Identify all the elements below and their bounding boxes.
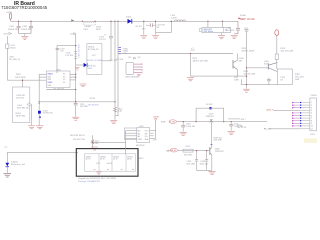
wire IR box to rail <box>31 105 33 126</box>
svg-text:2: 2 <box>311 105 312 107</box>
svg-text:IR:Receive_led: IR:Receive_led <box>11 164 25 166</box>
resistor R104 on +3V3 rail <box>6 36 8 44</box>
ground red inside keypad box <box>96 172 101 174</box>
svg-text:C?: C? <box>104 34 106 36</box>
svg-text:B? 1: B? 1 <box>97 163 101 165</box>
wire +5V elbow to diode <box>76 64 84 66</box>
svg-text:XXX ?: XXX ? <box>241 119 246 121</box>
svg-text:XXF 30Vuh: XXF 30Vuh <box>204 31 214 33</box>
label under wire start <box>116 59 124 61</box>
svg-text:C107: C107 <box>83 29 89 31</box>
node junction dots on bus <box>18 21 223 22</box>
net flag +5V <box>70 33 74 35</box>
label rows near cap rail <box>90 98 96 100</box>
wire Q202 base y=150.7 <box>178 150 210 152</box>
net flag +5V mid <box>128 57 141 59</box>
capacitor C203 leg <box>196 151 198 160</box>
svg-text:4K 7K: 4K 7K <box>86 159 91 161</box>
svg-text:10K/1% 10W: 10K/1% 10W <box>244 74 256 76</box>
svg-text:11: 11 <box>311 128 313 130</box>
wire Q202 emitter down <box>211 155 213 171</box>
resistor R701 chain <box>70 135 85 141</box>
rotated net text IR_3.3V <box>191 48 195 52</box>
ground under left rail <box>36 126 43 129</box>
capacitor snubber loop on bus <box>156 21 172 32</box>
net oval P_ON red <box>169 120 177 124</box>
capacitor C201 <box>182 122 184 126</box>
ground under R110 <box>110 120 117 123</box>
svg-text:NET: NET <box>142 28 146 30</box>
svg-text:3: 3 <box>311 107 312 109</box>
wire tall rail B x=118 <box>115 21 118 115</box>
wire mid horizontal y=76.1 <box>191 75 247 77</box>
wire bypass loop over Q201 <box>196 108 224 121</box>
resistor array on +5V rail <box>74 52 77 59</box>
svg-text:6: 6 <box>311 115 312 117</box>
capacitor C114 <box>74 103 78 105</box>
svg-text:10F JPL,B?: 10F JPL,B? <box>237 127 246 129</box>
svg-text:4K 7K: 4K 7K <box>113 159 118 161</box>
wire long rail x=246.5 <box>246 31 248 85</box>
svg-text:1/16 10W: 1/16 10W <box>214 140 222 142</box>
svg-text:10K/1% 1/16W: 10K/1% 1/16W <box>242 51 255 53</box>
svg-text:IR_LED_N: IR_LED_N <box>10 59 21 61</box>
pin ticks blue on rail B <box>118 48 121 54</box>
svg-text:2EL/1F10: 2EL/1F10 <box>184 154 192 156</box>
svg-text:R109: R109 <box>96 29 101 31</box>
wire base of Q102 <box>247 67 269 69</box>
resistor R112 label <box>193 58 208 63</box>
wire Q201 base down <box>211 122 213 147</box>
resistor R114 <box>275 54 278 60</box>
wire mid vertical x=188.5 <box>190 54 192 77</box>
svg-text:R107: R107 <box>16 74 22 76</box>
svg-text:D101: D101 <box>126 17 132 19</box>
svg-text:10K 1/16W: 10K 1/16W <box>15 77 25 79</box>
svg-text:LED102 +5V 100M: LED102 +5V 100M <box>86 60 102 62</box>
capacitor C204 leg <box>206 151 208 160</box>
svg-text:10?: 10? <box>138 57 141 59</box>
resistor R113 label <box>242 48 255 52</box>
wire tall rail A x=115 <box>114 21 116 107</box>
LED D103 blue square on rail <box>38 111 41 114</box>
svg-text:NET: C1.01: NET: C1.01 <box>240 17 255 21</box>
svg-text:GND: GND <box>138 139 143 141</box>
IR receiver U103 rounded box <box>126 62 134 74</box>
connector pin numbers <box>311 102 313 130</box>
svg-text:KB:A1: KB:A1 <box>48 73 53 76</box>
svg-text:P_ON: P_ON <box>169 122 175 124</box>
svg-text:XX: XX <box>280 79 283 81</box>
ground dark bottom-left <box>4 173 12 177</box>
keypad inner frame <box>84 154 135 171</box>
svg-text:PNP2222: PNP2222 <box>215 151 224 153</box>
capacitor rail x=111 <box>110 21 112 36</box>
svg-text:U103 CHQ0038: U103 CHQ0038 <box>125 77 140 79</box>
wire MCU bottom y=93.4 <box>46 89 75 91</box>
capacitor C113 <box>268 78 270 80</box>
svg-text:NOT WE: NOT WE <box>80 106 88 108</box>
svg-text:SCL: SCL <box>145 136 149 138</box>
svg-text:100UF 16V: 100UF 16V <box>21 29 32 31</box>
wire left rail x=39.2 <box>38 74 40 125</box>
ground under U100 <box>221 33 223 35</box>
IR module IR101 box <box>13 87 30 123</box>
svg-text:104: 104 <box>60 51 63 53</box>
svg-text:AT24C02: AT24C02 <box>136 144 145 147</box>
wire mid horizontal y=54.4 <box>118 53 233 55</box>
svg-text:+5V: +5V <box>70 33 74 35</box>
svg-text:U201: U201 <box>139 126 144 128</box>
red mark near MCU <box>75 68 80 71</box>
capacitor C105 <box>17 21 21 33</box>
svg-text:XX XXX: XX XXX <box>206 104 213 106</box>
svg-text:6.8K: 6.8K <box>118 111 122 113</box>
svg-text:2.2UF 16V: 2.2UF 16V <box>186 126 196 128</box>
transistor Q101 <box>232 60 234 69</box>
ground under IR box stub <box>28 126 35 129</box>
transistor Q201 <box>210 120 213 123</box>
svg-text:1/3W: 1/3W <box>234 79 239 81</box>
op-amp U101 block box <box>99 37 106 41</box>
svg-text:4N7: 4N7 <box>239 60 244 62</box>
resistor R110 zigzag <box>114 107 117 112</box>
wire horizontal to MCU <box>7 79 46 81</box>
transistor Q102 <box>264 61 269 65</box>
ground under C201 <box>180 132 187 135</box>
svg-text:1W: 1W <box>157 27 160 29</box>
svg-text:+3V3?: +3V3? <box>153 117 160 119</box>
svg-text:+3V3: +3V3 <box>3 34 9 36</box>
svg-text:4u: 4u <box>225 30 227 32</box>
svg-text:U102: U102 <box>56 70 62 72</box>
ground red right of MCU <box>80 84 87 87</box>
svg-text:SW2?: SW2? <box>139 158 144 160</box>
svg-text:R210: R210 <box>186 146 191 148</box>
wire +5V rail <box>75 34 77 104</box>
svg-text:NOT USE: NOT USE <box>187 164 196 166</box>
svg-text:10W: 10W <box>295 79 299 81</box>
wire EEPROM row y=142.3 <box>93 141 126 143</box>
svg-text:1005AF: 1005AF <box>85 25 92 28</box>
diode at IR box right edge <box>27 103 32 106</box>
wire +5V branch to MCU top <box>57 46 76 73</box>
ground under C105/C106 <box>21 36 28 39</box>
capacitor C110 at bus end <box>234 21 240 34</box>
wire IR box feed <box>22 80 24 87</box>
keypad switches SW201-SW204 <box>86 156 133 160</box>
ground under mid vertical <box>187 78 194 81</box>
node blue dot on loop top <box>209 107 211 109</box>
wire bottom-left long y=152.3 <box>7 151 78 153</box>
connector pin stubs and NC wires <box>300 103 310 129</box>
svg-text:C?4?: C?4? <box>153 140 157 142</box>
wire MCU left pins <box>39 73 46 75</box>
svg-text:NB XXXX 10K XX: NB XXXX 10K XX <box>70 135 85 137</box>
ground under C114 <box>72 117 79 120</box>
LED diode D102 blue <box>84 63 87 67</box>
wire y=100.8 <box>39 101 115 103</box>
svg-text:100UF 16V: 100UF 16V <box>8 29 19 31</box>
label wire stub row <box>228 118 240 120</box>
svg-text:XXX XXX/XX: XXX XXX/XX <box>88 105 100 107</box>
svg-text:KB2: KB2 <box>48 76 51 78</box>
svg-text:A1: A1 <box>138 132 140 135</box>
svg-text:100U 10V: 100U 10V <box>200 164 209 166</box>
svg-text:VCC: VCC <box>145 131 149 133</box>
transistor Q202 <box>209 147 211 155</box>
ground under Q202 <box>208 171 215 174</box>
resistor R107 label <box>15 74 25 79</box>
ground under long rail <box>246 85 248 89</box>
svg-text:IRIN: IRIN <box>48 79 52 81</box>
svg-text:7: 7 <box>311 118 312 120</box>
svg-text:XXX: XXX <box>264 63 269 65</box>
svg-text:9: 9 <box>311 123 312 125</box>
svg-text:Package 224/GAN/CPH: Package 224/GAN/CPH <box>78 180 100 183</box>
svg-text:A2: A2 <box>138 135 140 138</box>
svg-text:1=0.0L: 1=0.0L <box>107 163 113 165</box>
svg-text:16V 10%: 16V 10% <box>16 98 24 100</box>
svg-text:0402: 0402 <box>88 68 92 70</box>
svg-text:WP: WP <box>145 133 149 135</box>
svg-text:10K/1% 1/16 10W: 10K/1% 1/16 10W <box>193 61 208 63</box>
wire PC_ON to connector <box>272 128 300 130</box>
transistor Q201 labels <box>206 113 214 118</box>
opto box U104 <box>277 69 292 85</box>
wire eeprom bus into keypad <box>125 142 127 154</box>
capacitor C106 <box>29 21 33 33</box>
svg-text:+5V: +5V <box>128 57 132 59</box>
wire PNP main rail y=121.6 <box>177 121 267 123</box>
svg-text:+3V3_?: +3V3_? <box>266 109 274 111</box>
svg-text:4K/1K: 4K/1K <box>127 159 132 161</box>
svg-text:NOT WE_NC: NOT WE_NC <box>88 49 99 51</box>
ground under C202 <box>228 131 235 134</box>
inductor L100 on bus <box>171 15 177 20</box>
svg-text:4: 4 <box>311 110 312 112</box>
svg-text:CN201: CN201 <box>311 95 318 97</box>
resistor R115 label <box>244 71 256 76</box>
svg-text:X?0?: X?0? <box>161 121 165 123</box>
net name IR_LED text <box>10 57 21 62</box>
svg-text:+5V?: +5V? <box>92 55 96 57</box>
svg-text:PL400: PL400 <box>240 15 247 17</box>
svg-text:4K 7K: 4K 7K <box>100 159 105 161</box>
ground red above keypad box <box>91 147 98 150</box>
svg-text:P2: P2 <box>63 76 65 78</box>
svg-text:P1: P1 <box>63 74 65 76</box>
svg-text:A0: A0 <box>138 130 140 133</box>
svg-text:XX XX: XX XX <box>90 98 96 100</box>
svg-text:PNP2222: PNP2222 <box>206 116 214 118</box>
svg-text:NOT WE_NC: NOT WE_NC <box>17 107 30 109</box>
svg-text:GN_M: GN_M <box>170 150 176 152</box>
capacitor C202 <box>230 122 232 125</box>
wire eeprom right pins <box>150 131 156 139</box>
resistor network bracket <box>125 128 137 140</box>
svg-text:4.7F 1U: 4.7F 1U <box>99 39 106 41</box>
svg-text:+5V 10?: +5V 10? <box>135 26 142 28</box>
wire main +5V bus <box>11 20 239 22</box>
ground under C110 <box>231 35 238 38</box>
svg-text:P4: P4 <box>63 82 65 84</box>
svg-text:5: 5 <box>311 113 312 115</box>
keypad module box <box>76 149 138 177</box>
svg-text:S?0?: S?0? <box>310 134 316 136</box>
svg-text:10UH: 10UH <box>171 17 177 19</box>
svg-text:VSS: VSS <box>48 85 52 87</box>
svg-text:715G6077RD10000045: 715G6077RD10000045 <box>1 5 48 10</box>
wire bottom join <box>197 170 212 172</box>
svg-text:XXXX: XXXX <box>48 82 54 84</box>
svg-text:R11?: R11? <box>191 50 195 52</box>
pins of U103 <box>134 64 142 72</box>
jumper JP101 below bus <box>84 22 96 25</box>
wire arrow marker on bus <box>71 19 75 21</box>
LED D104 blue receive <box>6 152 8 162</box>
wire MCU right pins <box>70 73 76 75</box>
label rows left edge <box>237 125 246 129</box>
svg-text:C111: C111 <box>244 28 248 30</box>
svg-text:IR RED_NC: IR RED_NC <box>43 113 53 115</box>
svg-text:10K: 10K <box>95 143 99 145</box>
wire VCC rail x=276.8 <box>276 35 278 54</box>
ground pair mid bus <box>143 21 145 35</box>
svg-text:R104: R104 <box>11 47 17 49</box>
svg-text:XX XXX: XX XXX <box>116 59 124 61</box>
svg-text:4.7F 16V: 4.7F 16V <box>65 55 73 57</box>
net flag +5VSB <box>6 12 13 14</box>
net flag VCC red <box>275 30 279 36</box>
wire bottom rail y=84.6 <box>241 79 277 84</box>
keypad internal dividers <box>99 154 126 171</box>
svg-text:PC_ON?: PC_ON? <box>264 129 273 131</box>
wire +3V3 to connector <box>273 109 300 111</box>
wire cap bottoms join <box>19 33 31 35</box>
svg-text:10: 10 <box>311 126 313 128</box>
svg-text:C109 4.7F 16V X: C109 4.7F 16V X <box>77 44 79 59</box>
svg-text:C?: C? <box>5 147 8 149</box>
svg-text:8: 8 <box>311 121 312 123</box>
svg-text:1: 1 <box>311 102 312 104</box>
svg-text:P3: P3 <box>63 79 65 81</box>
svg-text:Keypad Use XXXXXX(?) 38.0.?: Keypad Use XXXXXX(?) 38.0.? 0/9 20RW <box>78 178 116 180</box>
capacitor C111 top of long rail <box>245 30 249 31</box>
capacitor on +5V drop <box>56 48 60 50</box>
regulator U100 box <box>207 21 209 27</box>
svg-text:SDA: SDA <box>145 138 149 141</box>
net flag +3V3 left <box>3 34 9 36</box>
ground small near U103 <box>137 74 141 75</box>
svg-text:TSOP 38K: TSOP 38K <box>16 116 26 118</box>
svg-text:10K 10K? 10K: 10K 10K? 10K <box>73 139 85 141</box>
wire +3V3 rail down <box>6 48 8 80</box>
svg-text:10K 1/16 10W: 10K 1/16 10W <box>281 51 294 53</box>
